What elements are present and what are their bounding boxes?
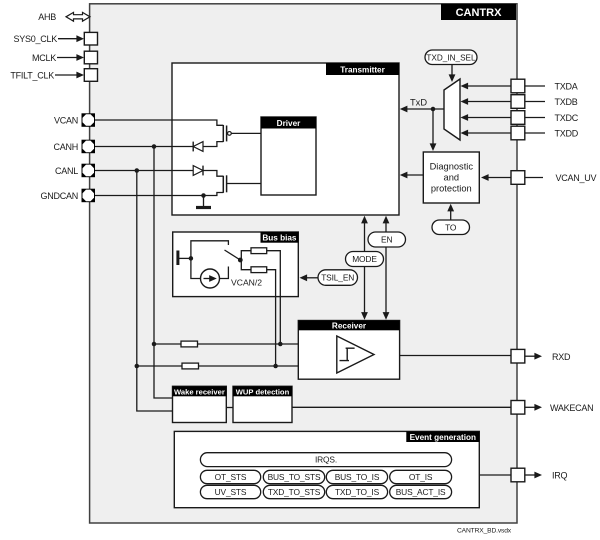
svg-text:CANH: CANH <box>53 142 78 152</box>
pin RXD <box>511 349 571 363</box>
pin MCLK <box>32 51 98 64</box>
wire TxD to diagnostic <box>430 109 437 151</box>
node TXD_TO_IS <box>326 485 387 498</box>
pin AHB (bidirectional) <box>38 12 90 22</box>
junction CANL sense <box>135 364 140 369</box>
wire event generation to IRQ <box>479 474 511 476</box>
outer chip boundary CANTRX <box>90 4 517 523</box>
node OT_STS <box>200 470 260 483</box>
svg-text:OT_IS: OT_IS <box>409 472 433 482</box>
junction bus bias left <box>189 256 194 261</box>
pad pin CANH <box>53 140 95 154</box>
wire receiver output to RXD <box>400 355 511 357</box>
svg-text:TXD_TO_STS: TXD_TO_STS <box>268 487 321 497</box>
svg-text:Wake receiver: Wake receiver <box>174 387 225 396</box>
pad pin CANL <box>55 164 95 178</box>
driver block U1 <box>261 117 316 195</box>
pin WAKECAN <box>511 401 593 415</box>
wire CANH vertical to wake receiver <box>154 147 173 399</box>
pin TXDC <box>461 111 579 125</box>
svg-text:CANTRX_BD.vsdx: CANTRX_BD.vsdx <box>457 528 512 535</box>
node UV_STS <box>200 485 260 498</box>
junction TxD <box>431 107 436 112</box>
pin TXDA <box>461 79 578 93</box>
transistor Q1 PMOS <box>223 125 261 142</box>
junction R1 drop <box>278 342 283 347</box>
svg-text:Transmitter: Transmitter <box>340 65 385 74</box>
wire R1 to CANH sense line <box>267 251 281 344</box>
wire WUP detection to WAKECAN <box>292 406 511 408</box>
svg-text:Diagnostic: Diagnostic <box>430 162 474 172</box>
svg-text:TXDA: TXDA <box>555 82 578 92</box>
svg-text:VCAN/2: VCAN/2 <box>231 278 262 288</box>
wire CANL sense line to receiver <box>137 365 298 367</box>
svg-text:protection: protection <box>431 184 472 194</box>
svg-text:VCAN_UV: VCAN_UV <box>556 173 597 183</box>
svg-text:TSIL_EN: TSIL_EN <box>321 273 354 283</box>
svg-text:TXDC: TXDC <box>555 113 579 123</box>
wire switch to resistors <box>240 251 251 260</box>
ground <box>196 196 211 208</box>
title CANTRX <box>441 4 516 20</box>
svg-text:TFILT_CLK: TFILT_CLK <box>10 71 54 81</box>
svg-text:RXD: RXD <box>552 352 571 362</box>
svg-text:AHB: AHB <box>38 12 56 22</box>
svg-text:Driver: Driver <box>277 119 301 128</box>
svg-text:CANTRX: CANTRX <box>456 7 502 19</box>
svg-text:BUS_ACT_IS: BUS_ACT_IS <box>396 487 446 497</box>
diode D1 on CANH <box>193 142 203 152</box>
switch blade <box>225 250 241 260</box>
pad pin VCAN <box>54 113 95 127</box>
svg-text:WUP detection: WUP detection <box>236 387 290 396</box>
node IRQS. <box>200 453 451 467</box>
resistor R1 (bus bias top) <box>251 248 267 254</box>
svg-text:MCLK: MCLK <box>32 53 56 63</box>
receiver block <box>298 321 399 380</box>
svg-text:Event generation: Event generation <box>410 433 476 442</box>
svg-text:TXDD: TXDD <box>555 129 579 139</box>
pin VCAN_UV <box>481 171 597 185</box>
junction R2 drop <box>273 364 278 369</box>
diagnostic and protection block <box>423 152 479 203</box>
pin SYS0_CLK <box>13 32 97 45</box>
pin IRQ <box>511 468 568 482</box>
wire top path to switch contact <box>191 241 229 259</box>
svg-text:TXD_IN_SEL: TXD_IN_SEL <box>426 53 476 62</box>
wire MODE line (transmitter-receiver) <box>361 216 368 320</box>
WUP detection block <box>233 386 292 422</box>
svg-text:SYS0_CLK: SYS0_CLK <box>13 34 57 44</box>
svg-text:BUS_TO_STS: BUS_TO_STS <box>268 472 321 482</box>
wire diagnostic to transmitter <box>400 172 424 179</box>
mux U2 <box>444 79 460 140</box>
wire wake receiver to WUP detection <box>226 407 233 409</box>
wire GNDCAN to NMOS source <box>95 193 223 196</box>
oval TXD_IN_SEL <box>425 50 477 65</box>
wire CANH sense line to receiver <box>154 343 298 345</box>
svg-text:TO: TO <box>445 222 457 232</box>
junction switch output <box>238 258 243 263</box>
svg-text:EN: EN <box>381 235 392 245</box>
svg-text:Receiver: Receiver <box>332 321 367 330</box>
oval MODE <box>346 252 384 267</box>
svg-text:TxD: TxD <box>410 98 427 108</box>
svg-text:IRQS.: IRQS. <box>315 455 337 465</box>
junction CANH <box>152 144 157 149</box>
wire CANL <box>95 171 223 177</box>
oval TSIL_EN <box>300 270 358 286</box>
diode D2 on CANL <box>193 166 203 176</box>
svg-text:Bus bias: Bus bias <box>262 233 297 242</box>
bus bias block <box>173 232 299 297</box>
wire CANL vertical to wake receiver <box>137 171 173 412</box>
wire TxD <box>400 98 444 113</box>
wire R2 to CANL sense line <box>267 270 276 366</box>
svg-text:MODE: MODE <box>352 254 377 264</box>
wire wall to junction <box>179 257 191 259</box>
node BUS_TO_IS <box>326 470 387 483</box>
comparator U3 <box>337 336 374 373</box>
wire EN line (transmitter-receiver) <box>383 216 390 320</box>
svg-text:TXDB: TXDB <box>555 97 578 107</box>
transistor Q2 NMOS <box>223 175 261 193</box>
pin TXDB <box>461 95 578 109</box>
node BUS_ACT_IS <box>390 485 452 498</box>
svg-text:UV_STS: UV_STS <box>215 487 247 497</box>
junction CANL <box>135 168 140 173</box>
transmitter block <box>172 63 399 215</box>
svg-text:IRQ: IRQ <box>552 471 568 481</box>
wire bottom path to current source <box>191 258 201 278</box>
pin TXDD <box>461 126 579 140</box>
node TXD_TO_STS <box>263 485 324 498</box>
oval EN <box>368 232 406 247</box>
svg-text:BUS_TO_IS: BUS_TO_IS <box>335 472 380 482</box>
bus bias wall terminal <box>176 251 179 266</box>
wire CANH <box>95 142 223 147</box>
svg-text:GNDCAN: GNDCAN <box>40 191 78 201</box>
pin TFILT_CLK <box>10 69 97 82</box>
node OT_IS <box>390 470 452 483</box>
svg-text:VCAN: VCAN <box>54 116 78 126</box>
current source I1 <box>201 269 220 288</box>
wire TXD_IN_SEL to mux <box>449 65 456 83</box>
wake receiver block <box>173 386 227 422</box>
event generation block <box>174 431 479 507</box>
junction GNDCAN <box>201 193 206 198</box>
svg-text:TXD_TO_IS: TXD_TO_IS <box>335 487 380 497</box>
svg-text:CANL: CANL <box>55 166 78 176</box>
wire current source to switch <box>220 267 229 279</box>
resistor R4 <box>182 363 199 369</box>
svg-text:WAKECAN: WAKECAN <box>550 403 593 413</box>
resistor R2 (bus bias bottom) <box>251 267 267 273</box>
node BUS_TO_STS <box>263 470 324 483</box>
junction CANH sense <box>152 342 157 347</box>
svg-text:and: and <box>444 173 460 183</box>
svg-text:OT_STS: OT_STS <box>215 472 247 482</box>
wire VCAN to PMOS source <box>95 120 223 125</box>
resistor R3 <box>181 341 198 347</box>
pad pin GNDCAN <box>40 189 95 203</box>
oval TO <box>432 204 470 235</box>
